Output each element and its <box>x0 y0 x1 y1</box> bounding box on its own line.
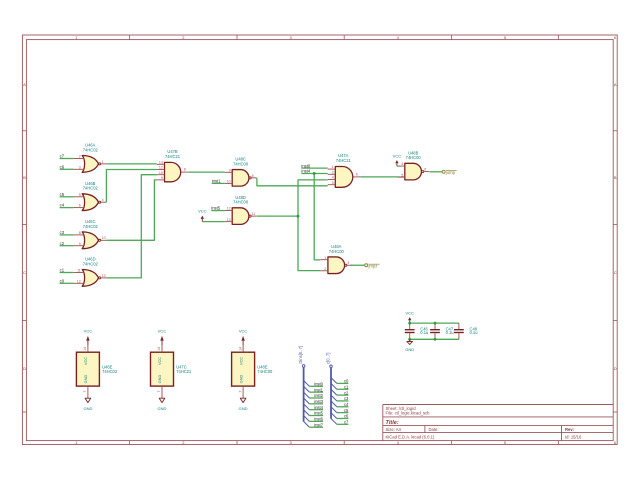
svg-text:0.1u: 0.1u <box>420 330 428 335</box>
wire c7 to U46A <box>60 158 74 160</box>
svg-text:2: 2 <box>324 267 326 271</box>
wire GND rail to caps <box>410 338 459 340</box>
junction at (298.0,216.1) <box>297 215 300 218</box>
svg-text:5: 5 <box>332 181 334 185</box>
svg-text:inst4: inst4 <box>314 405 324 410</box>
wire U46C.10 to U47B.9 <box>106 180 156 240</box>
svg-text:3: 3 <box>347 261 349 265</box>
svg-text:74HC00: 74HC00 <box>406 155 422 160</box>
svg-text:GND: GND <box>157 374 162 383</box>
pin 12 of U47B <box>157 169 165 171</box>
svg-text:10: 10 <box>102 236 106 240</box>
svg-text:1: 1 <box>332 165 334 169</box>
pin 2 of U48A <box>320 270 328 272</box>
GND power symbol below U47C <box>158 397 167 411</box>
output pin 8 of U47B <box>181 171 189 173</box>
svg-text:c4: c4 <box>60 203 65 208</box>
VCC power symbol at (202.3,221.65) <box>198 208 207 221</box>
svg-text:GND: GND <box>83 374 88 383</box>
svg-text:inst3: inst3 <box>314 399 324 404</box>
output pin 13 of U46D <box>101 277 107 279</box>
junction at (409.7,323.1) <box>408 322 411 325</box>
pin 7 of U48E <box>242 386 244 397</box>
bus entry inst3 <box>304 398 310 404</box>
svg-text:13: 13 <box>227 218 231 222</box>
svg-text:74HC00: 74HC00 <box>257 369 273 374</box>
svg-text:10: 10 <box>227 180 231 184</box>
svg-text:2: 2 <box>332 170 334 174</box>
wire U48C.8 to U47A.5 <box>257 178 328 186</box>
svg-text:9: 9 <box>79 242 81 246</box>
svg-text:74HC00: 74HC00 <box>329 249 345 254</box>
svg-text:inst0: inst0 <box>314 382 324 387</box>
wire inst4 to U47A.2 <box>301 173 327 175</box>
GND power symbol below U46E <box>83 397 92 411</box>
bus entry inst5 <box>304 410 310 416</box>
svg-text:D: D <box>23 366 26 371</box>
svg-text:Dins[0..7]: Dins[0..7] <box>298 346 303 364</box>
wire inst1 to U48C.10 <box>212 182 225 184</box>
wire U46D.13 to U47B.10 <box>106 175 156 278</box>
svg-text:14: 14 <box>83 347 87 351</box>
svg-text:VCC: VCC <box>158 329 167 334</box>
svg-text:6: 6 <box>424 168 426 172</box>
svg-text:74HC00: 74HC00 <box>233 161 249 166</box>
svg-text:B: B <box>23 175 26 180</box>
wire inst0 to U47A.1 <box>301 167 327 169</box>
wire c1 stub <box>337 388 349 390</box>
wire inst6 stub <box>309 420 323 422</box>
wire U47B.8 to U48C.9 <box>188 171 224 173</box>
svg-text:GND: GND <box>405 347 414 352</box>
svg-text:GND: GND <box>239 406 248 411</box>
bus entry c1 <box>331 383 337 389</box>
wire c3 stub <box>337 400 349 402</box>
pin 9 of U47B <box>157 179 165 181</box>
bus entry inst0 <box>304 381 310 387</box>
pin 5 of U48B <box>397 176 405 178</box>
bus entry c2 <box>331 389 337 395</box>
svg-text:GND: GND <box>158 406 167 411</box>
svg-text:File: ctl_logic.kicad_sch: File: ctl_logic.kicad_sch <box>386 411 431 416</box>
svg-text:Rev:: Rev: <box>565 427 574 432</box>
svg-text:74HC02: 74HC02 <box>83 186 99 191</box>
svg-text:c[0..7]: c[0..7] <box>326 353 331 364</box>
pin 1 of U47A <box>328 168 336 170</box>
power unit U48E (74HC00) <box>232 346 273 398</box>
power unit U47C (74HC21) <box>151 346 192 398</box>
bus entry c3 <box>331 395 337 401</box>
pin 2 of U46A <box>74 158 85 160</box>
svg-text:6: 6 <box>356 172 358 176</box>
svg-text:13: 13 <box>102 274 106 278</box>
svg-text:11: 11 <box>252 212 256 216</box>
svg-text:C: C <box>23 270 26 275</box>
bus entry inst2 <box>304 392 310 398</box>
NAND gate U48B (74HC00) <box>397 150 429 180</box>
wire U46B.4 to U47B.12 <box>106 170 156 203</box>
bus entry c5 <box>331 407 337 413</box>
svg-text:7: 7 <box>83 390 87 392</box>
wire U47A.4 / U48D.11 / U48A.2 net <box>298 180 328 271</box>
svg-text:inst1: inst1 <box>314 387 324 392</box>
output pin 4 of U46B <box>101 201 107 203</box>
bus entry c7 <box>331 419 337 425</box>
svg-text:GND: GND <box>238 374 243 383</box>
svg-text:1: 1 <box>102 160 104 164</box>
wire c0 stub <box>337 382 349 384</box>
pin 4 of U47A <box>328 179 336 181</box>
wire inst5 to U48D.12 <box>211 210 224 212</box>
wire VCC to U48B.4 <box>397 165 400 167</box>
svg-text:c6: c6 <box>344 414 349 419</box>
pin 11 of U46D <box>74 272 85 274</box>
pin 3 of U46A <box>74 168 85 170</box>
wire inst0 stub <box>309 385 323 387</box>
wire inst5 stub <box>309 415 323 417</box>
svg-text:c0: c0 <box>344 379 349 384</box>
pin 13 of U47B <box>157 163 165 165</box>
wire c6 to U46A <box>60 168 74 170</box>
svg-text:inst5: inst5 <box>314 411 324 416</box>
svg-text:Id: 15/16: Id: 15/16 <box>565 435 582 440</box>
svg-text:VCC: VCC <box>405 311 414 316</box>
pin 8 of U46C <box>74 234 85 236</box>
svg-text:D: D <box>614 366 617 371</box>
svg-text:B: B <box>614 175 617 180</box>
bus entry inst1 <box>304 386 310 392</box>
junction at (409.7,339.3) <box>408 338 411 341</box>
svg-text:VCC: VCC <box>239 329 248 334</box>
svg-text:A: A <box>614 82 617 87</box>
NAND gate U48C (74HC00) <box>225 157 257 187</box>
svg-text:VCC: VCC <box>157 357 162 365</box>
svg-text:VCC: VCC <box>393 154 402 159</box>
wire inst3 stub <box>309 403 323 405</box>
GND power symbol at (409.7,339.3) <box>405 339 414 352</box>
svg-text:74HC21: 74HC21 <box>165 154 181 159</box>
pin 12 of U46D <box>74 282 85 284</box>
wire inst1 stub <box>309 391 323 393</box>
bus entry inst7 <box>304 421 310 427</box>
bus c[0..7] <box>326 353 333 419</box>
svg-text:12: 12 <box>77 279 81 283</box>
svg-text:4: 4 <box>401 162 403 166</box>
bus entry c0 <box>331 378 337 384</box>
bus entry inst4 <box>304 404 310 410</box>
capacitor C48 0.1u <box>454 323 478 339</box>
wire c3 to U46C <box>60 234 74 236</box>
wire U48B.6 to jump <box>430 171 443 173</box>
pin 12 of U48D <box>225 210 233 212</box>
NOR gate U46C (74HC02) <box>74 219 107 249</box>
svg-text:Size: A4: Size: A4 <box>386 427 402 432</box>
svg-text:7: 7 <box>157 390 161 392</box>
wire inst2 stub <box>309 397 323 399</box>
svg-text:4: 4 <box>332 176 334 180</box>
wire inst7 stub <box>309 426 323 428</box>
pin 10 of U47B <box>157 174 165 176</box>
bus Dins[0..7] <box>298 346 305 422</box>
bus entry c6 <box>331 413 337 419</box>
svg-text:KiCad E.D.A. kicad (6.0.1): KiCad E.D.A. kicad (6.0.1) <box>386 435 435 440</box>
output pin 3 of U48A <box>347 264 353 266</box>
pin 14 of U47C <box>161 346 163 353</box>
svg-text:c5: c5 <box>60 192 65 197</box>
svg-text:c5: c5 <box>344 408 349 413</box>
svg-text:10: 10 <box>159 171 163 175</box>
wire c6 stub <box>337 417 349 419</box>
wire c7 stub <box>337 423 349 425</box>
output pin 1 of U46A <box>101 163 107 165</box>
NOR gate U46D (74HC02) <box>74 257 107 287</box>
junction at (435.0,323.1) <box>434 322 437 325</box>
power unit U46E (74HC02) <box>76 346 117 398</box>
pin 13 of U48D <box>225 221 233 223</box>
svg-text:74HC02: 74HC02 <box>83 147 99 152</box>
VCC power symbol above U47C <box>158 329 167 346</box>
hierarchical label jmpz (active low) <box>365 264 380 269</box>
NOR gate U46A (74HC02) <box>74 143 107 173</box>
svg-text:c7: c7 <box>344 420 349 425</box>
pin 7 of U46E <box>87 386 89 397</box>
svg-text:74HC00: 74HC00 <box>233 200 249 205</box>
svg-text:12: 12 <box>159 166 163 170</box>
svg-text:74HC02: 74HC02 <box>83 224 99 229</box>
svg-text:8: 8 <box>184 168 186 172</box>
NAND gate U48A (74HC00) <box>320 244 352 273</box>
svg-text:4: 4 <box>102 198 104 202</box>
svg-text:74HC02: 74HC02 <box>83 261 99 266</box>
svg-text:GND: GND <box>83 406 92 411</box>
svg-text:9: 9 <box>161 176 163 180</box>
svg-text:1: 1 <box>324 256 326 260</box>
svg-text:VCC: VCC <box>83 357 88 365</box>
pin 9 of U48C <box>225 171 233 173</box>
junction at (435.0,339.3) <box>434 338 437 341</box>
pin 14 of U46E <box>87 346 89 353</box>
VCC power symbol above U48E <box>239 329 248 346</box>
pin 1 of U48A <box>320 259 328 261</box>
wire VCC to U48D.13 <box>202 221 224 223</box>
wire c4 to U46B <box>60 207 74 209</box>
pin 5 of U47A <box>328 184 336 186</box>
svg-text:14: 14 <box>157 347 161 351</box>
svg-text:c3: c3 <box>344 396 349 401</box>
output pin 6 of U48B <box>424 171 430 173</box>
svg-text:74HC21: 74HC21 <box>336 158 352 163</box>
svg-text:C: C <box>614 270 617 275</box>
VCC power symbol at (396.9,166.1) <box>393 154 402 166</box>
svg-text:c6: c6 <box>60 164 65 169</box>
pin 6 of U46B <box>74 207 85 209</box>
svg-text:Title:: Title: <box>386 420 399 426</box>
pin 2 of U47A <box>328 173 336 175</box>
hierarchical label jump (active low) <box>442 170 457 175</box>
wire U46A.1 to U47B.13 <box>106 163 156 165</box>
output pin 10 of U46C <box>101 239 107 241</box>
NAND gate U48D (74HC00) <box>225 195 257 225</box>
svg-text:inst6: inst6 <box>314 417 324 422</box>
pin 4 of U48B <box>397 165 405 167</box>
svg-text:c4: c4 <box>344 402 349 407</box>
svg-text:8: 8 <box>252 174 254 178</box>
wire c5 to U46B <box>60 196 74 198</box>
wire c2 stub <box>337 394 349 396</box>
svg-text:8: 8 <box>79 231 81 235</box>
pin 7 of U47C <box>161 386 163 397</box>
wire inst4 to U48A.1 <box>314 174 320 260</box>
junction at (314.2,173.5) <box>313 172 316 175</box>
output pin 6 of U47A <box>353 176 361 178</box>
capacitor C46 0.1u <box>405 323 429 339</box>
svg-text:inst2: inst2 <box>314 393 324 398</box>
svg-text:3: 3 <box>79 165 81 169</box>
svg-text:VCC: VCC <box>238 357 243 365</box>
page frame <box>22 35 617 445</box>
svg-text:c1: c1 <box>344 384 349 389</box>
pin 5 of U46B <box>74 196 85 198</box>
wire c2 to U46C <box>60 245 74 247</box>
wire c1 to U46D <box>60 272 74 274</box>
svg-text:2: 2 <box>79 155 81 159</box>
svg-text:7: 7 <box>238 390 242 392</box>
VCC power symbol above U46E <box>84 329 93 346</box>
AND gate U47B (74HC21) <box>157 149 188 182</box>
output pin 8 of U48C <box>251 177 257 179</box>
VCC power symbol at (409.7,323.1) <box>405 311 414 324</box>
bus entry inst6 <box>304 416 310 422</box>
svg-text:9: 9 <box>229 168 231 172</box>
svg-text:6: 6 <box>79 204 81 208</box>
svg-text:12: 12 <box>227 207 231 211</box>
svg-text:74HC21: 74HC21 <box>176 369 192 374</box>
wire VCC rail to caps <box>410 322 459 324</box>
svg-text:c2: c2 <box>344 390 349 395</box>
AND gate U47A (74HC21) <box>328 153 361 187</box>
svg-text:0.1u: 0.1u <box>470 330 478 335</box>
svg-text:5: 5 <box>79 193 81 197</box>
bus entry c4 <box>331 401 337 407</box>
svg-text:13: 13 <box>159 160 163 164</box>
wire U48D.11 to junction <box>257 215 298 217</box>
capacitor C47 0.1u <box>430 323 454 339</box>
svg-text:inst7: inst7 <box>314 422 324 427</box>
svg-text:74HC02: 74HC02 <box>102 369 118 374</box>
svg-text:14: 14 <box>238 347 242 351</box>
svg-text:VCC: VCC <box>84 329 93 334</box>
svg-text:A: A <box>23 82 26 87</box>
NOR gate U46B (74HC02) <box>74 181 107 211</box>
output pin 11 of U48D <box>251 215 257 217</box>
svg-text:VCC: VCC <box>198 208 207 213</box>
wire inst4 stub <box>309 409 323 411</box>
wire U47A.6 to U48B.5 <box>360 176 398 178</box>
pin 14 of U48E <box>242 346 244 353</box>
svg-text:11: 11 <box>77 269 81 273</box>
wire U48A.3 to jmpz <box>350 264 364 266</box>
wire c0 to U46D <box>60 282 74 284</box>
title block <box>383 404 613 406</box>
GND power symbol below U48E <box>239 397 248 411</box>
wire c5 stub <box>337 412 349 414</box>
pin 9 of U46C <box>74 245 85 247</box>
wire c4 stub <box>337 406 349 408</box>
svg-text:0.1u: 0.1u <box>446 330 454 335</box>
pin 10 of U48C <box>225 182 233 184</box>
svg-text:Date:: Date: <box>429 427 439 432</box>
